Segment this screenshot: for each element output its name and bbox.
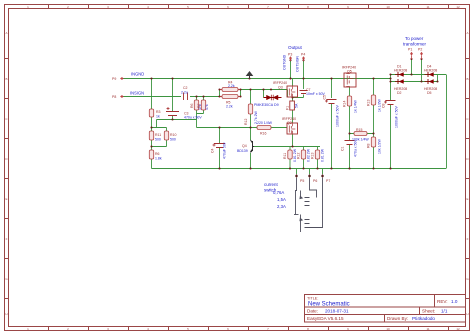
svg-text:2.2k: 2.2k [226, 105, 233, 109]
svg-text:2018-07-31: 2018-07-31 [325, 309, 349, 314]
svg-text:P9: P9 [112, 77, 116, 81]
svg-text:P7: P7 [326, 179, 330, 183]
svg-text:470u x 50v: 470u x 50v [354, 140, 358, 157]
svg-text:R12: R12 [244, 119, 248, 125]
svg-text:Q3: Q3 [278, 86, 283, 90]
svg-text:P1: P1 [408, 48, 412, 52]
svg-text:INSIGN: INSIGN [130, 91, 144, 96]
svg-text:500: 500 [155, 138, 161, 142]
svg-text:transformer: transformer [403, 42, 427, 47]
svg-text:R16: R16 [260, 132, 266, 136]
svg-text:C5: C5 [323, 95, 327, 100]
svg-text:F: F [467, 237, 469, 241]
svg-text:2,3A: 2,3A [277, 204, 286, 209]
svg-text:10: 10 [386, 327, 390, 331]
svg-text:11: 11 [426, 5, 429, 9]
svg-text:2.7k 2W: 2.7k 2W [254, 110, 258, 124]
svg-text:P5: P5 [300, 179, 304, 183]
svg-text:BD139: BD139 [237, 149, 248, 153]
svg-text:P4: P4 [301, 53, 305, 57]
svg-text:D2: D2 [397, 91, 402, 95]
svg-text:New Schematic: New Schematic [308, 302, 350, 308]
svg-text:To power: To power [405, 36, 424, 41]
svg-text:P3: P3 [288, 53, 292, 57]
svg-text:0,76A: 0,76A [273, 190, 284, 195]
svg-text:1.8k: 1.8k [155, 157, 162, 161]
svg-text:1.0: 1.0 [451, 299, 458, 304]
svg-text:1k 1/4W: 1k 1/4W [354, 99, 358, 113]
svg-text:E: E [5, 197, 7, 201]
svg-text:1,5A: 1,5A [277, 197, 286, 202]
svg-text:10: 10 [386, 5, 390, 9]
svg-text:H: H [466, 312, 468, 316]
svg-text:470uF 50v: 470uF 50v [223, 142, 227, 159]
svg-text:HER208: HER208 [424, 69, 437, 73]
svg-text:E: E [466, 197, 468, 201]
svg-text:Q2: Q2 [287, 121, 292, 125]
svg-text:B: B [466, 77, 468, 81]
svg-text:500: 500 [170, 138, 176, 142]
svg-text:Q5: Q5 [347, 70, 352, 74]
svg-text:R11: R11 [283, 153, 287, 159]
svg-text:R14: R14 [343, 101, 347, 107]
svg-text:R15: R15 [356, 128, 362, 132]
svg-text:5A: 5A [295, 103, 299, 108]
svg-text:B: B [5, 77, 7, 81]
svg-text:Q4: Q4 [242, 144, 247, 148]
svg-text:R7: R7 [197, 103, 201, 108]
svg-text:C8: C8 [382, 103, 386, 108]
svg-text:A: A [466, 31, 468, 35]
svg-text:12: 12 [456, 5, 460, 9]
svg-text:R10: R10 [170, 133, 176, 137]
svg-text:1000uF x 50V: 1000uF x 50V [336, 105, 340, 127]
svg-text:11: 11 [426, 327, 429, 331]
svg-text:47k: 47k [205, 104, 209, 110]
svg-text:0.81 2W: 0.81 2W [321, 148, 325, 162]
svg-text:Sheet:: Sheet: [422, 309, 435, 314]
svg-text:OUTSIGN: OUTSIGN [296, 56, 300, 72]
svg-text:1000uF x 50V: 1000uF x 50V [395, 106, 399, 128]
svg-text:P2: P2 [418, 48, 422, 52]
svg-text:C2: C2 [183, 86, 188, 90]
svg-text:P8: P8 [112, 95, 116, 99]
svg-text:REV:: REV: [437, 299, 448, 304]
svg-text:2.2k: 2.2k [228, 84, 235, 88]
svg-text:F: F [6, 237, 8, 241]
svg-text:470u x 50V: 470u x 50V [184, 116, 202, 120]
svg-text:INGND: INGND [131, 72, 144, 77]
svg-text:F1: F1 [286, 106, 290, 110]
svg-text:2.2u: 2.2u [181, 91, 188, 95]
svg-text:R8: R8 [367, 143, 371, 148]
svg-text:R3: R3 [156, 110, 161, 114]
svg-text:IRFP240: IRFP240 [273, 81, 287, 85]
svg-text:Pti4kadodo: Pti4kadodo [412, 316, 435, 321]
svg-text:TITLE:: TITLE: [307, 297, 318, 301]
svg-text:R6: R6 [155, 152, 160, 156]
svg-text:220 1/4W: 220 1/4W [257, 121, 273, 125]
svg-text:R13: R13 [311, 153, 315, 159]
svg-text:1k: 1k [156, 115, 160, 119]
svg-text:R6: R6 [190, 103, 194, 108]
svg-text:12: 12 [456, 327, 460, 331]
svg-text:H: H [5, 312, 7, 316]
svg-text:Output: Output [288, 45, 303, 50]
svg-text:Drawn By:: Drawn By: [387, 316, 408, 321]
svg-text:1/1: 1/1 [441, 309, 448, 314]
svg-text:D5: D5 [427, 91, 432, 95]
svg-text:OUTGND: OUTGND [283, 54, 287, 70]
svg-text:Date:: Date: [307, 309, 318, 314]
svg-text:C4: C4 [211, 148, 215, 153]
svg-text:10k 1/2W: 10k 1/2W [378, 139, 382, 154]
svg-text:A: A [5, 31, 7, 35]
svg-text:PMKE30CA D9: PMKE30CA D9 [254, 103, 279, 107]
svg-text:R13: R13 [367, 100, 371, 106]
svg-text:C1: C1 [341, 146, 345, 151]
svg-text:EasyEDA V5.6.15: EasyEDA V5.6.15 [307, 316, 344, 321]
svg-text:R12: R12 [297, 153, 301, 159]
svg-text:current: current [264, 182, 278, 187]
svg-text:R11: R11 [155, 133, 161, 137]
svg-text:P6: P6 [313, 179, 317, 183]
svg-text:HER208: HER208 [394, 69, 407, 73]
